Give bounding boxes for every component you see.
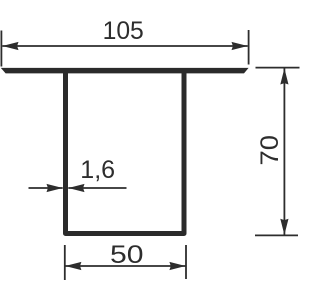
dimension 70: up arrowhead [280,68,288,84]
dimension 50: right extension line [185,245,187,279]
dimension 70: down arrowhead [280,219,288,235]
svg-text:1,6: 1,6 [80,156,115,184]
dimension 50: left extension line [64,245,66,280]
dimension 105: left extension line [0,31,2,67]
dimension 70: bottom reference line [255,234,298,236]
svg-text:50: 50 [110,241,144,269]
svg-text:105: 105 [103,17,144,45]
dimension 105: left arrowhead [2,42,18,50]
dimension 50: left arrowhead [65,262,81,270]
profile U-channel (webs + bottom) [66,72,185,234]
profile top flange (105 mm wide, chamfered tips) [1,68,249,74]
dimension 1,6: left leader line [29,187,63,189]
dimension 1,6: right leader line [68,187,126,189]
dimension 70: top reference line [256,67,300,69]
dimension 1,6: left-pointing arrowhead [68,184,84,192]
dimension 50: dimension line [65,265,185,267]
dimension 70: vertical dimension line [283,69,285,235]
dimension 105: right arrowhead [232,42,248,50]
dimension 50: right arrowhead [169,262,185,270]
svg-text:70: 70 [256,135,284,166]
dimension 105: right extension line [248,30,250,65]
dimension 105: dimension line [2,45,247,47]
dimension 1,6: right-pointing arrowhead [47,184,63,192]
